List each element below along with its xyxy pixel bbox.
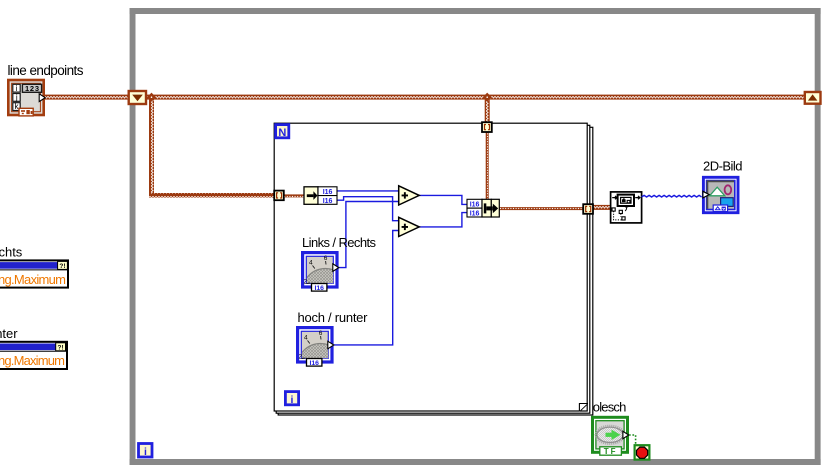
svg-text:I16: I16 <box>470 211 480 218</box>
svg-text:?!: ?! <box>58 344 64 351</box>
bundle node <box>467 199 499 217</box>
svg-text:2: 2 <box>298 354 302 361</box>
svg-text:?!: ?! <box>59 263 65 270</box>
knob control hoch / runter <box>297 328 344 391</box>
blue wire: unbundle bottom output to add2 top input <box>337 197 399 221</box>
while loop iteration terminal i <box>139 444 153 459</box>
green dotted boolean wire <box>629 435 636 445</box>
wire: main hatched wire across while loop <box>146 95 805 100</box>
svg-text:I16: I16 <box>323 189 333 196</box>
while loop conditional terminal (stop if true) <box>635 445 650 459</box>
blue wire: knob1 to add1 bottom input <box>339 202 399 268</box>
inner for-loop stacked frame page 3 <box>278 127 593 415</box>
svg-text:I16: I16 <box>470 202 480 209</box>
tunnel: inner loop left (indexing) <box>274 191 284 201</box>
svg-text:Links / Rechts: Links / Rechts <box>302 235 377 250</box>
svg-text:6: 6 <box>319 330 323 337</box>
wire junction at branch 2 <box>483 93 492 102</box>
wire: hatched from right tunnel to draw node <box>593 205 611 210</box>
property node 2 (hoch / runter) <box>0 342 67 369</box>
2D-Bild picture indicator terminal <box>703 177 738 212</box>
wire: dotted brown bundle to right tunnel <box>499 207 584 210</box>
unbundle node <box>304 187 337 205</box>
wire: dotted brown vertical from top tunnel to bundle <box>486 132 489 200</box>
svg-text:i: i <box>144 446 147 458</box>
svg-text:i: i <box>16 84 18 93</box>
line endpoints control terminal <box>8 80 45 116</box>
inner for-loop stacked frame page 2 <box>276 125 590 413</box>
svg-text:hoch / runter: hoch / runter <box>0 326 18 341</box>
wire: horizontal branch to inner loop left tunnel <box>149 193 276 198</box>
for loop iteration terminal i <box>285 392 298 406</box>
tunnel: inner loop right (indexing) <box>583 204 593 214</box>
right shift register <box>805 92 821 104</box>
inner for-loop stacked frame page 1 <box>274 123 587 411</box>
svg-text:Links / Rechts: Links / Rechts <box>0 245 23 260</box>
svg-text:olesch: olesch <box>593 400 627 415</box>
blue wire: add1 output to bundle <box>419 195 467 204</box>
svg-text:TF: TF <box>604 447 618 456</box>
wire: vertical branch down at x=487 <box>485 97 490 123</box>
svg-text:line endpoints: line endpoints <box>8 63 84 78</box>
svg-text:i: i <box>291 394 294 406</box>
property node 1 (Links / Rechts) <box>0 260 68 287</box>
svg-text:ng.Maximum: ng.Maximum <box>0 353 65 368</box>
wire: dotted brown left tunnel to unbundle <box>283 194 305 197</box>
add node 2 <box>399 217 420 236</box>
svg-text:4: 4 <box>304 335 308 342</box>
svg-text:4: 4 <box>309 260 313 267</box>
for loop N terminal <box>276 125 289 139</box>
blue wavy picture wire <box>642 195 702 197</box>
add node 1 <box>399 186 420 205</box>
svg-text:ng.Maximum: ng.Maximum <box>0 272 66 287</box>
boolean control olesch <box>593 417 629 456</box>
blue wire: add2 output to bundle <box>419 213 467 227</box>
left shift register <box>129 91 146 104</box>
svg-text:2D-Bild: 2D-Bild <box>703 158 743 173</box>
svg-text:I16: I16 <box>323 198 333 205</box>
wire junction at branch 1 <box>147 93 156 102</box>
svg-text:j: j <box>15 93 18 102</box>
wire: line endpoints to left shift register (hatched brown) <box>44 95 130 100</box>
blue wire: knob2 to add2 bottom input <box>334 231 399 345</box>
svg-text:I16: I16 <box>314 285 324 292</box>
draw picture node <box>611 192 642 223</box>
tunnel: inner loop top (indexing) <box>482 122 492 132</box>
blue wire: unbundle top output to add1 <box>337 190 399 192</box>
svg-text:123: 123 <box>25 84 39 93</box>
svg-text:hoch / runter: hoch / runter <box>298 310 369 325</box>
svg-text:I16: I16 <box>309 360 319 367</box>
fold corner of inner loop <box>579 403 588 412</box>
svg-text:6: 6 <box>324 255 328 262</box>
svg-text:2: 2 <box>303 279 307 286</box>
wire: vertical branch down at x=151 <box>149 97 154 196</box>
knob control Links / Rechts <box>302 253 349 316</box>
svg-text:N: N <box>278 127 286 139</box>
